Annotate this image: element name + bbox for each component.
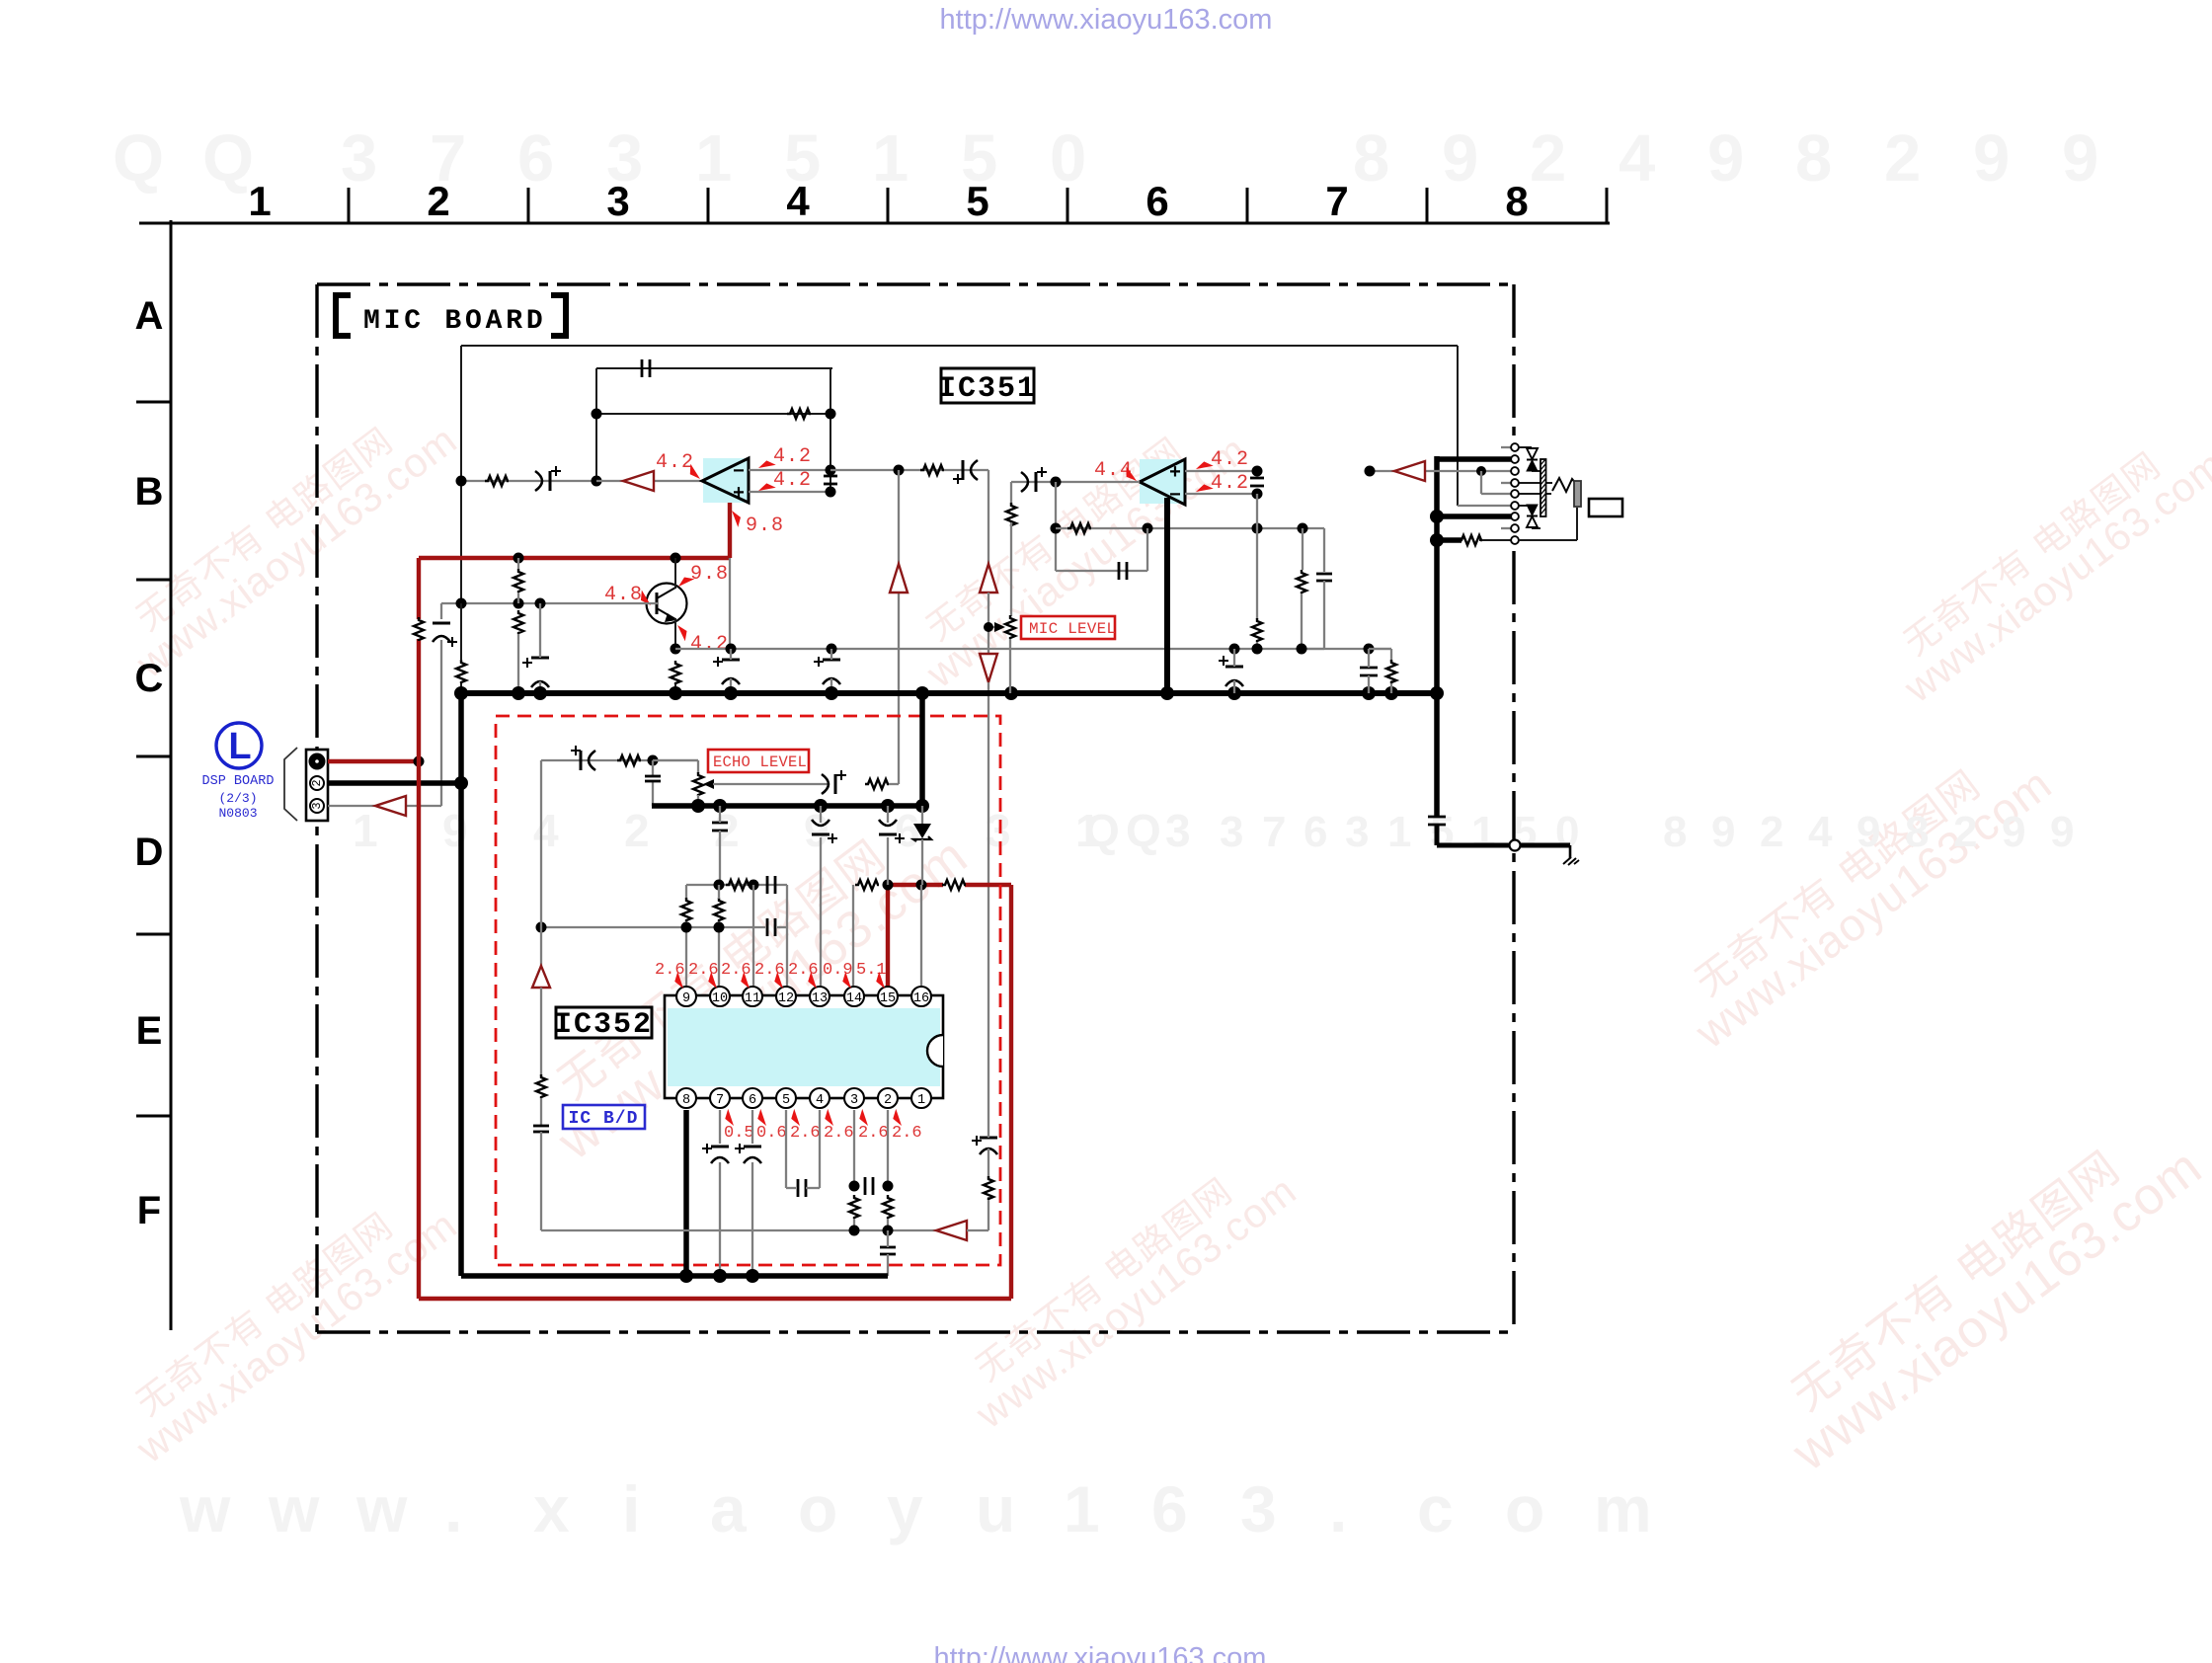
node feedback-right bbox=[826, 409, 836, 420]
wire pin2 v bbox=[887, 1110, 889, 1186]
svg-text:A: A bbox=[135, 294, 164, 338]
resistor 1319 bbox=[1297, 570, 1306, 594]
wire 1001 low bbox=[987, 1135, 989, 1138]
svg-text:w: w bbox=[179, 1472, 231, 1545]
wire U2 minus in bbox=[1185, 493, 1257, 495]
wire pin3 low bbox=[853, 1219, 855, 1230]
node red-933 bbox=[916, 880, 927, 891]
wire 1319 to mid bbox=[1301, 594, 1303, 649]
node pin3-1201 bbox=[849, 1181, 860, 1192]
svg-text:3: 3 bbox=[1240, 1472, 1277, 1545]
svg-text:8: 8 bbox=[1795, 121, 1832, 196]
node red-525 bbox=[513, 553, 524, 564]
node base-547 bbox=[535, 598, 546, 609]
IC352 body bbox=[665, 995, 943, 1098]
node mid-740 bbox=[726, 644, 737, 655]
node 939-548 bbox=[536, 922, 547, 933]
wire U1 out right bbox=[830, 469, 988, 471]
wire echo corner bbox=[653, 759, 698, 761]
svg-text:4: 4 bbox=[1808, 808, 1833, 856]
node border crossing (open) bbox=[1510, 840, 1521, 851]
node mid-1318 bbox=[1297, 644, 1307, 655]
resistor bias upper bbox=[513, 569, 523, 593]
wire pin6 v bbox=[751, 1110, 753, 1144]
svg-text:0.9: 0.9 bbox=[823, 961, 853, 980]
grid ruler top line bbox=[139, 222, 1610, 225]
svg-text:Q: Q bbox=[202, 121, 254, 196]
wire 9.8V supply (red) bbox=[728, 503, 732, 558]
node red-899 bbox=[883, 880, 894, 891]
node U1 plus bbox=[826, 487, 836, 498]
svg-text:1: 1 bbox=[353, 805, 378, 856]
wire pot top bbox=[1010, 522, 1012, 616]
wire pin12 v bbox=[786, 885, 788, 987]
svg-text:6: 6 bbox=[1303, 808, 1327, 856]
svg-text:2.6: 2.6 bbox=[688, 961, 719, 980]
svg-text:ECHO LEVEL: ECHO LEVEL bbox=[713, 753, 807, 771]
capacitor mid-842 bbox=[823, 659, 840, 662]
wire feedback left vert bbox=[595, 368, 597, 481]
wire 548 bottom bbox=[540, 1132, 542, 1230]
signal arrow DSP pin3 bbox=[375, 796, 406, 816]
wire U2 output bbox=[1011, 481, 1140, 483]
capacitor right vert bbox=[1428, 816, 1446, 819]
svg-text:2: 2 bbox=[884, 1093, 892, 1108]
IC351 label bbox=[938, 368, 1037, 406]
wire 1001 mid bbox=[987, 593, 989, 654]
node echo-661 bbox=[648, 755, 659, 766]
svg-text:E: E bbox=[136, 1009, 163, 1053]
wire pin5 loop bbox=[785, 1110, 787, 1188]
wire main bus (thick) bbox=[458, 690, 1440, 696]
svg-text:2.6: 2.6 bbox=[824, 1124, 854, 1143]
wire U1 plus node down bbox=[898, 470, 900, 564]
resistor pin2 bbox=[883, 1195, 893, 1219]
wire left thick vert bbox=[458, 693, 464, 1276]
node bus-684 bbox=[669, 686, 682, 700]
potentiometer MIC LEVEL bbox=[988, 615, 1015, 639]
svg-text:13: 13 bbox=[812, 991, 828, 1006]
diode pair lower bbox=[1519, 505, 1540, 528]
svg-text:9: 9 bbox=[2050, 808, 2074, 856]
svg-text:1: 1 bbox=[695, 121, 732, 196]
wire 1274 to mid bbox=[1256, 642, 1258, 649]
wire jack sleeve bbox=[1519, 539, 1577, 541]
svg-text:16: 16 bbox=[913, 991, 929, 1006]
wire row939 bbox=[541, 926, 765, 928]
svg-text:F: F bbox=[137, 1189, 161, 1232]
diode pair upper bbox=[1519, 447, 1540, 471]
svg-text:2.6: 2.6 bbox=[790, 1124, 821, 1143]
wire 1246 right bbox=[967, 1229, 988, 1231]
node 896-728 bbox=[714, 880, 725, 891]
wire 1001 to cross bbox=[987, 682, 989, 1135]
svg-text:.: . bbox=[444, 1472, 462, 1545]
svg-text:Q: Q bbox=[1084, 805, 1120, 856]
svg-text:5: 5 bbox=[966, 178, 988, 224]
IC B/D label bbox=[563, 1105, 645, 1129]
node rail-934 bbox=[915, 799, 929, 813]
wire base row bbox=[441, 602, 658, 604]
wire pin3 v bbox=[853, 1110, 855, 1186]
echo section box (red dashed) bbox=[496, 716, 1000, 1265]
signal arrow jack bbox=[1394, 461, 1425, 481]
wire fb bottom bbox=[1056, 570, 1147, 572]
svg-text:1: 1 bbox=[1064, 1472, 1100, 1545]
node echo rail-831 bbox=[814, 799, 828, 813]
IC352 top pins 9-16 bbox=[676, 987, 931, 1006]
wire echo left vert bbox=[540, 760, 542, 966]
wire pin11 v bbox=[752, 885, 754, 987]
svg-text:2.6: 2.6 bbox=[858, 1124, 889, 1143]
jack tip box bbox=[1589, 499, 1622, 516]
wire 548 low bbox=[540, 1098, 542, 1125]
signal arrow 1246 bbox=[936, 1221, 967, 1240]
resistor to pot bbox=[1006, 503, 1016, 526]
node bus2-695 bbox=[679, 1269, 693, 1283]
svg-text:6: 6 bbox=[517, 121, 554, 196]
signal arrow into U1 bbox=[623, 471, 654, 491]
wire mid-1386 v bbox=[1368, 649, 1370, 668]
svg-text:9: 9 bbox=[1442, 121, 1478, 196]
node bus-1182 bbox=[1160, 686, 1174, 700]
wire DSP pin1 (red) bbox=[328, 759, 419, 763]
svg-text:15: 15 bbox=[880, 991, 896, 1006]
wire fb row bbox=[1056, 527, 1324, 529]
svg-text:2.6: 2.6 bbox=[892, 1124, 922, 1143]
capacitor rail-729 bbox=[712, 822, 728, 825]
capacitor row939 bbox=[766, 918, 769, 936]
wire bias upper bbox=[517, 558, 519, 569]
wire pot bottom bbox=[1009, 639, 1011, 693]
svg-text:2.6: 2.6 bbox=[721, 961, 751, 980]
capacitor base bypass bbox=[531, 657, 549, 660]
grid row letters A-F bbox=[135, 294, 164, 1232]
node bus-547 bbox=[533, 686, 547, 700]
ground symbol bbox=[1563, 845, 1579, 865]
wire DSP pin3 bbox=[328, 805, 441, 807]
node fb-1319 bbox=[1298, 523, 1308, 534]
grid ruler top ticks bbox=[349, 188, 1607, 223]
svg-text:w: w bbox=[355, 1472, 408, 1545]
svg-text:1: 1 bbox=[872, 121, 908, 196]
svg-text:−: − bbox=[1169, 485, 1181, 508]
node echo rail-707 bbox=[691, 799, 705, 813]
wire box-left lower bbox=[460, 603, 462, 661]
wire base cap bbox=[539, 603, 541, 658]
node feedback-left bbox=[592, 409, 602, 420]
node echo rail-729 bbox=[713, 799, 727, 813]
svg-text:w: w bbox=[268, 1472, 320, 1545]
svg-text:+: + bbox=[733, 483, 745, 506]
svg-text:9: 9 bbox=[682, 991, 690, 1006]
wire U2 gnd (thick) bbox=[1164, 498, 1170, 693]
svg-text:3: 3 bbox=[1345, 808, 1369, 856]
signal arrow down 1001 bbox=[980, 654, 997, 682]
resistor emitter bbox=[671, 661, 680, 684]
wire rail-729 v bbox=[719, 806, 721, 823]
capacitor out coupling bbox=[962, 460, 965, 480]
wire Q1 collector bbox=[674, 558, 676, 589]
svg-text:2: 2 bbox=[310, 779, 324, 786]
svg-text:14: 14 bbox=[846, 991, 862, 1006]
wire U2 plus in bbox=[1185, 470, 1257, 472]
potentiometer ECHO LEVEL bbox=[693, 772, 714, 796]
wire red rail bbox=[419, 556, 730, 560]
resistor 548 bbox=[536, 1074, 546, 1098]
svg-text:0.5: 0.5 bbox=[724, 1124, 754, 1143]
wire mic signal bbox=[1370, 470, 1511, 472]
svg-text:8: 8 bbox=[1353, 121, 1389, 196]
resistor echo series bbox=[617, 755, 641, 765]
svg-text:2.6: 2.6 bbox=[655, 961, 685, 980]
resistor pin3 bbox=[849, 1195, 859, 1219]
svg-text:Q: Q bbox=[113, 121, 164, 196]
capacitor 548 bbox=[533, 1125, 549, 1128]
connector brace bbox=[284, 748, 297, 821]
svg-text:0: 0 bbox=[1555, 808, 1579, 856]
capacitor 896 bbox=[766, 876, 769, 894]
node 939-728 bbox=[714, 922, 725, 933]
wire DSP pin2 (thick) bbox=[328, 780, 461, 786]
svg-text:5: 5 bbox=[1430, 808, 1454, 856]
svg-text:1: 1 bbox=[917, 1093, 925, 1108]
resistor echo wiper bbox=[865, 779, 889, 789]
wire 1341 to mid bbox=[1323, 581, 1325, 649]
svg-text:Q: Q bbox=[1126, 805, 1161, 856]
capacitor U2 feedback bbox=[1118, 562, 1121, 580]
node 1246-899 bbox=[883, 1226, 894, 1236]
node red-684 bbox=[671, 553, 681, 564]
svg-text:6: 6 bbox=[1145, 178, 1168, 224]
wire pin14 up bbox=[852, 885, 854, 987]
capacitor across U1 inputs bbox=[824, 475, 837, 478]
resistor in red line bbox=[414, 617, 424, 641]
svg-text:2: 2 bbox=[427, 178, 449, 224]
wire emitter to bus bbox=[674, 683, 676, 693]
wire input to arrow bbox=[596, 480, 702, 482]
node mid-1250 bbox=[1229, 644, 1240, 655]
svg-text:4.2: 4.2 bbox=[773, 445, 812, 468]
svg-text:(2/3): (2/3) bbox=[218, 791, 257, 806]
node bus-525 bbox=[512, 686, 525, 700]
wire pin2 cap bbox=[887, 1230, 889, 1247]
wire 1500 down bbox=[1480, 471, 1482, 494]
connector CN DSP BOARD bbox=[306, 750, 328, 821]
svg-text:8: 8 bbox=[682, 1093, 690, 1108]
node jack-523 bbox=[1430, 510, 1444, 523]
svg-text:http://www.xiaoyu163.com: http://www.xiaoyu163.com bbox=[940, 4, 1273, 36]
node base-467 bbox=[456, 598, 467, 609]
node bus2-729 bbox=[713, 1269, 727, 1283]
svg-text:9: 9 bbox=[1856, 808, 1880, 856]
svg-text:4.2: 4.2 bbox=[1211, 472, 1249, 495]
IC352 bottom pins 8-1 bbox=[676, 1088, 931, 1108]
node input-604 bbox=[592, 476, 602, 487]
jack switch contact bbox=[1552, 478, 1577, 492]
svg-text:9: 9 bbox=[2062, 121, 2098, 196]
resistor mid-1409 bbox=[1386, 660, 1396, 683]
wire rail-899 v bbox=[887, 806, 889, 823]
svg-text:3: 3 bbox=[341, 121, 377, 196]
svg-text:B: B bbox=[135, 470, 164, 514]
node 896-763 bbox=[749, 880, 759, 891]
wire out corner down bbox=[987, 470, 989, 564]
node fb-left bbox=[1051, 523, 1062, 534]
node bus-1386 bbox=[1362, 686, 1376, 700]
svg-text:7: 7 bbox=[1262, 808, 1286, 856]
svg-text:i: i bbox=[622, 1472, 640, 1545]
node emitter-657 bbox=[671, 644, 681, 655]
node pin2-1201 bbox=[883, 1181, 894, 1192]
svg-text:6: 6 bbox=[895, 805, 920, 856]
svg-text:4.2: 4.2 bbox=[773, 469, 812, 492]
node mid-842 bbox=[827, 644, 837, 655]
signal arrow up 910 bbox=[890, 564, 908, 593]
svg-text:y: y bbox=[887, 1472, 923, 1545]
wire zener v bbox=[921, 806, 923, 824]
svg-text:9: 9 bbox=[804, 805, 829, 856]
resistor out series bbox=[920, 465, 944, 475]
svg-text:1: 1 bbox=[1471, 808, 1495, 856]
label L (blue circle) bbox=[216, 723, 262, 768]
svg-text:11: 11 bbox=[745, 991, 760, 1006]
wire bottom bus (thick) bbox=[461, 1273, 888, 1279]
op-amp U2 bbox=[1140, 459, 1185, 508]
svg-text:12: 12 bbox=[778, 991, 794, 1006]
svg-text:N0803: N0803 bbox=[218, 806, 257, 821]
wire wiper corner bbox=[889, 783, 899, 785]
grid ruler left ticks bbox=[136, 402, 171, 1116]
wire pin stubs bbox=[1501, 446, 1511, 448]
svg-text:3: 3 bbox=[606, 178, 629, 224]
wire inner box top bbox=[461, 345, 1458, 347]
capacitor feedback C (op-amp U1) bbox=[641, 359, 644, 377]
svg-text:IC352: IC352 bbox=[554, 1008, 653, 1042]
svg-text:1: 1 bbox=[1387, 808, 1411, 856]
resistor box-left lower bbox=[456, 660, 466, 683]
svg-text:0: 0 bbox=[1050, 121, 1086, 196]
node red-771 bbox=[414, 756, 425, 767]
wire jack 547 bbox=[1437, 537, 1461, 543]
wire U1 plus out bbox=[749, 491, 830, 493]
svg-text:4: 4 bbox=[786, 178, 810, 224]
wire pin7 v bbox=[719, 1110, 721, 1144]
svg-text:2.6: 2.6 bbox=[788, 961, 819, 980]
svg-text:9: 9 bbox=[1973, 121, 2010, 196]
svg-text:4.2: 4.2 bbox=[656, 451, 694, 474]
jack sleeve bar bbox=[1574, 481, 1581, 507]
resistor jack-547 bbox=[1459, 535, 1482, 545]
node mid-1273 bbox=[1252, 644, 1263, 655]
node base-525 bbox=[513, 598, 524, 609]
node bus-1409 bbox=[1384, 686, 1398, 700]
resistor pin14-red bbox=[855, 880, 879, 890]
capacitor echo coupling bbox=[580, 751, 583, 770]
resistor pin10 bbox=[714, 898, 724, 921]
wire red to pin15 bbox=[886, 885, 890, 987]
node 1246-865 bbox=[849, 1226, 860, 1236]
resistor feedback R (op-amp U1) bbox=[787, 409, 811, 419]
svg-text:D: D bbox=[135, 831, 164, 874]
wire red loop left bbox=[417, 558, 421, 619]
wire pin9 v bbox=[685, 921, 687, 987]
svg-text:IC351: IC351 bbox=[938, 372, 1037, 406]
node U2 out fb bbox=[1051, 477, 1062, 488]
svg-text:IC B/D: IC B/D bbox=[569, 1109, 639, 1129]
svg-text:DSP BOARD: DSP BOARD bbox=[202, 774, 275, 789]
node U2 minus bbox=[1252, 489, 1263, 500]
wire 1341 down bbox=[1323, 528, 1325, 572]
node U2 plus bbox=[1252, 466, 1263, 477]
svg-text:1: 1 bbox=[248, 178, 271, 224]
wire pin right stubs bbox=[1519, 482, 1552, 484]
resistor 1274 bbox=[1252, 618, 1262, 642]
node bus2-762 bbox=[746, 1269, 759, 1283]
svg-text:7: 7 bbox=[716, 1093, 724, 1108]
wire mid-1250 v bbox=[1233, 649, 1235, 667]
capacitor 1341 bbox=[1316, 573, 1332, 576]
capacitor echo-661 bbox=[645, 775, 661, 778]
voltage labels top pins bbox=[655, 961, 890, 990]
wire pin4 loop bbox=[806, 1187, 820, 1189]
svg-text:9: 9 bbox=[442, 805, 468, 856]
wire innerbox to pin bbox=[1458, 505, 1511, 507]
node bus-934 bbox=[915, 686, 929, 700]
wire inner box left bbox=[460, 346, 462, 662]
wire row1246 bbox=[541, 1229, 936, 1231]
resistor U2 feedback bbox=[1067, 523, 1091, 533]
capacitor input coupling bbox=[549, 471, 552, 491]
svg-text:2: 2 bbox=[1953, 808, 1977, 856]
svg-text:2.6: 2.6 bbox=[754, 961, 785, 980]
svg-text:2: 2 bbox=[624, 805, 650, 856]
svg-text:9: 9 bbox=[1711, 808, 1735, 856]
wire rail-831 v bbox=[820, 806, 822, 823]
svg-text:3: 3 bbox=[1165, 805, 1191, 856]
wire red loop right bbox=[1009, 885, 1013, 1299]
wire fb right v bbox=[1146, 528, 1148, 571]
svg-text:3: 3 bbox=[1220, 808, 1243, 856]
wire feedback cap top bbox=[596, 367, 832, 369]
resistor in red seg bbox=[942, 880, 966, 890]
svg-text:8: 8 bbox=[1905, 808, 1929, 856]
node bus-467 bbox=[454, 686, 468, 700]
resistor 896 bbox=[726, 880, 750, 890]
resistor pin9 bbox=[681, 898, 691, 921]
signal arrow up 548 bbox=[532, 966, 550, 988]
IC352 label bbox=[554, 1007, 653, 1042]
wire bias lower bbox=[517, 634, 519, 693]
svg-text:o: o bbox=[798, 1472, 837, 1545]
svg-text:c: c bbox=[1417, 1472, 1454, 1545]
wire thick vert from bus bbox=[919, 693, 925, 806]
wire jack 523 (thick) bbox=[1437, 514, 1511, 519]
capacitor mic-in series bbox=[433, 622, 450, 625]
wire mic-in vert bbox=[440, 603, 442, 619]
node jack-547 bbox=[1430, 533, 1444, 547]
wire 548 mid bbox=[540, 988, 542, 1076]
capacitor mid-740 bbox=[722, 659, 740, 662]
wire red loop bottom bbox=[419, 1297, 1011, 1301]
wire 896 left down bbox=[685, 885, 687, 899]
node bus-740 bbox=[724, 686, 738, 700]
node fb-1274 bbox=[1252, 523, 1263, 534]
svg-text:+: + bbox=[1169, 462, 1181, 485]
svg-text:4.2: 4.2 bbox=[1211, 448, 1249, 471]
resistor right-1001 bbox=[984, 1176, 993, 1200]
svg-text:4: 4 bbox=[816, 1093, 824, 1108]
